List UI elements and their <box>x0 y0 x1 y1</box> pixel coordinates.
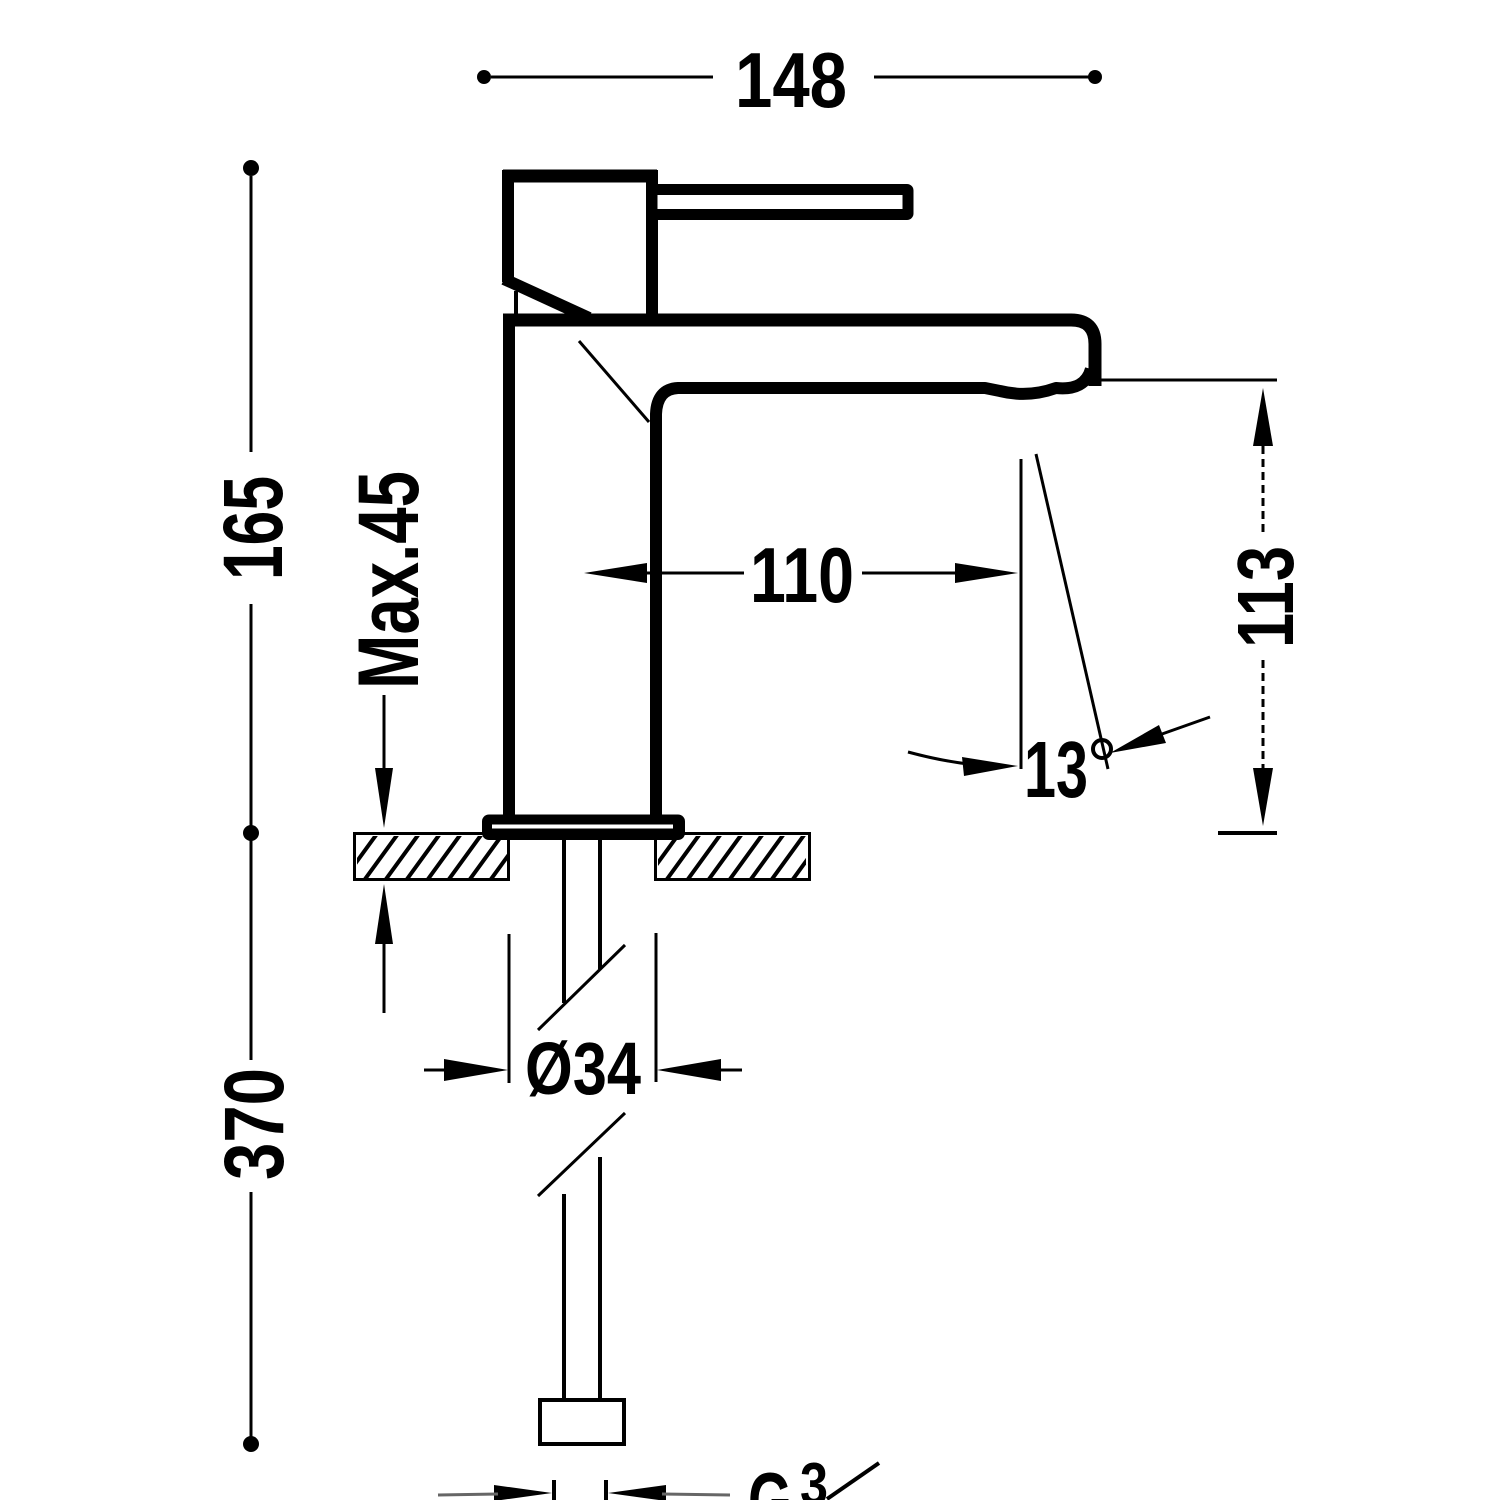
countertop right slab hatching <box>620 831 828 886</box>
dimension 110 right shaft <box>862 572 958 575</box>
svg-text:148: 148 <box>735 36 847 124</box>
svg-text:Ø34: Ø34 <box>525 1027 641 1110</box>
angle left leader shaft <box>908 752 1000 766</box>
faucet spout thin contour line <box>579 341 649 422</box>
supply pipe lower left line <box>562 1194 566 1398</box>
dimension 110 left shaft <box>645 572 744 575</box>
angle right leader shaft <box>1162 717 1210 734</box>
svg-text:3: 3 <box>800 1451 828 1500</box>
svg-text:370: 370 <box>207 1068 301 1180</box>
faucet base plate <box>482 815 685 841</box>
countertop right slab <box>656 834 810 880</box>
faucet spout top and tip <box>503 320 1095 386</box>
diameter 34 right arrowhead <box>657 1059 721 1081</box>
svg-text:110: 110 <box>750 531 854 619</box>
supply pipe upper left line <box>562 840 566 1003</box>
dimension 370 bottom dot <box>243 1436 259 1452</box>
angle left leader arrowhead <box>962 757 1018 776</box>
supply pipe upper right line <box>598 840 602 969</box>
diameter 34 left arrowhead <box>444 1059 508 1081</box>
dimension 165 line upper segment <box>250 176 253 452</box>
svg-text:113: 113 <box>1221 546 1310 648</box>
dimension 148 right dot <box>1088 70 1102 84</box>
dimension 370 line upper segment <box>250 840 253 1060</box>
dimension 113 upper dashed shaft <box>1262 446 1265 535</box>
angle slanted stream line <box>1036 454 1108 769</box>
thread dimension right tail <box>662 1494 730 1495</box>
dimension 165 line lower segment <box>250 604 253 828</box>
dimension 113 bottom arrowhead <box>1253 768 1273 826</box>
dimension 110 left arrowhead <box>584 563 647 583</box>
Max.45 up arrowhead <box>375 884 393 944</box>
dimension 148 left dot <box>477 70 491 84</box>
diameter 34 left extension line <box>508 934 511 1083</box>
thread dimension left tick <box>552 1480 556 1500</box>
faucet cartridge top cap <box>503 170 657 183</box>
faucet spout underside and body right edge <box>656 369 1091 817</box>
thread dimension left arrowhead <box>494 1485 552 1500</box>
faucet cartridge left edge <box>502 170 514 282</box>
dimension 113 bottom tick <box>1218 831 1277 835</box>
diameter 34 right arrow tail <box>717 1069 742 1072</box>
faucet lever handle <box>652 190 908 215</box>
dimension 110 right arrowhead <box>955 563 1018 583</box>
diameter 34 right extension line <box>655 933 658 1082</box>
faucet body left edge <box>503 320 515 817</box>
supply pipe lower right line <box>598 1157 602 1398</box>
svg-text:G: G <box>748 1456 792 1500</box>
pipe break slash upper <box>538 945 625 1030</box>
spout height extension line <box>1100 379 1277 382</box>
svg-text:165: 165 <box>206 476 300 580</box>
Max.45 upper leader shaft <box>383 695 386 772</box>
thread label fraction slash <box>827 1463 879 1499</box>
thread dimension right arrowhead <box>608 1485 666 1500</box>
angle right leader arrowhead <box>1110 725 1166 753</box>
faucet cartridge front slant <box>504 279 589 318</box>
Max.45 down arrowhead <box>375 768 393 828</box>
pipe end fitting <box>540 1400 624 1444</box>
dimension 148 line left segment <box>491 76 713 79</box>
dimension 370 line lower segment <box>250 1192 253 1440</box>
countertop left slab <box>355 834 509 880</box>
dimension 113 lower dashed shaft <box>1262 660 1265 768</box>
dimension 113 top arrowhead <box>1253 388 1273 446</box>
diameter 34 left arrow tail <box>424 1069 448 1072</box>
Max.45 lower leader shaft <box>383 944 386 1013</box>
thread dimension left tail <box>438 1494 498 1495</box>
svg-text:13: 13 <box>1024 725 1088 814</box>
thread dimension right tick <box>604 1480 608 1500</box>
angle reference vertical line <box>1020 459 1023 769</box>
faucet cartridge slant inner edge <box>514 291 518 318</box>
faucet cartridge right edge <box>646 170 658 320</box>
dimension 165/370 shared dot <box>243 825 259 841</box>
pipe break slash lower <box>538 1113 625 1196</box>
dimension 165 top dot <box>243 160 259 176</box>
countertop left slab hatching <box>318 831 526 886</box>
dimension 148 line right segment <box>874 76 1089 79</box>
svg-text:Max.45: Max.45 <box>341 471 437 689</box>
faucet base plate highlight line <box>492 825 673 829</box>
